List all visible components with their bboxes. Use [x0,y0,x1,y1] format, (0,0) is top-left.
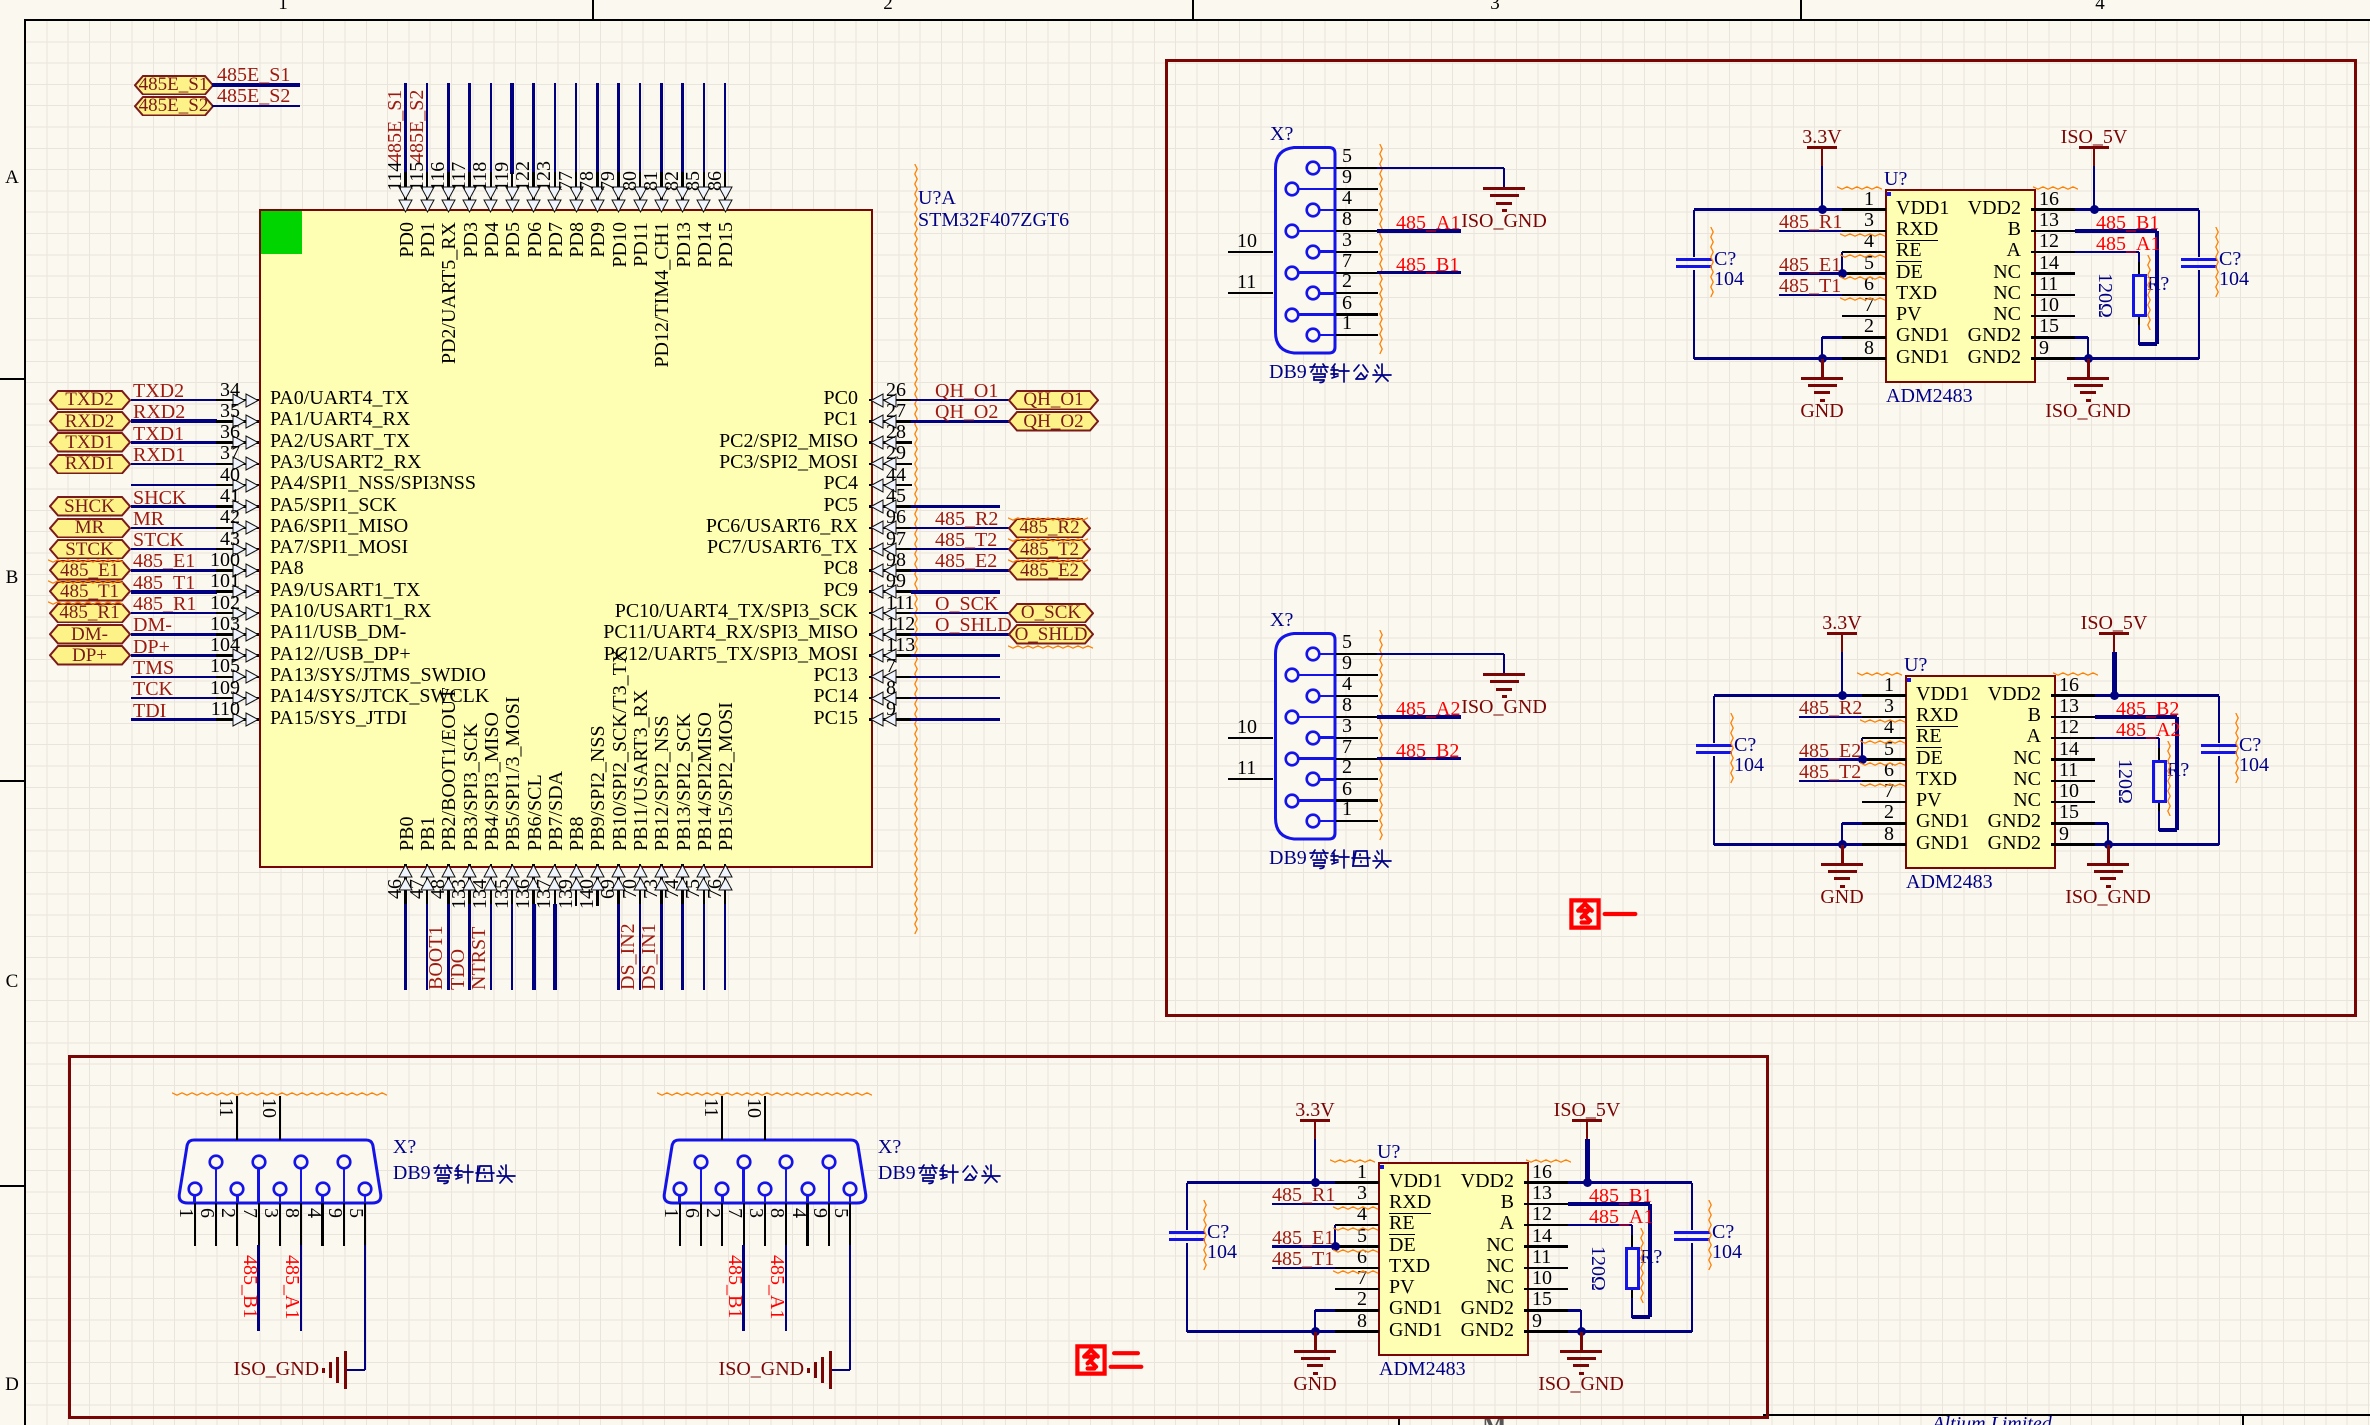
pin number 7 [1067,1270,1367,1287]
wire PD3 [468,83,471,174]
pin name PA8 [270,560,304,577]
orange zigzag right cap [2235,713,2240,784]
wire PB0 [404,904,407,990]
pin number 112 [886,616,915,633]
pin name PD2/UART5_RX [442,222,457,472]
pin number 79 [601,0,616,191]
wire pin5 to ISO_GND [849,1245,852,1370]
net label 485E_S1 [217,67,290,84]
pin 105 lead [216,676,259,679]
wire 485_A1 from pin8 [785,1245,788,1331]
net label 485_T1 [1272,1251,1334,1268]
MCU corner green square [261,211,302,254]
connector pin 5 circle [357,1181,373,1197]
net label STCK [133,532,184,549]
net label SHCK [133,490,186,507]
pin name PD9 [591,222,606,472]
net label 485E_S2 [217,88,290,105]
wire PD13 [681,83,684,174]
connector pin number 2 [1342,273,1352,290]
pin 16 lead [2031,208,2075,211]
pin 13 lead [1524,1203,1568,1206]
pin 47 lead [426,864,429,906]
orange zigzag left cap [1203,1200,1208,1271]
wire 485_T1 [1272,1267,1335,1270]
pin name B [1214,1194,1514,1211]
connector pin 3 lead [1318,736,1336,739]
pin number 100 [0,552,240,569]
pin name PC14 [558,688,858,705]
pin 2 lead [1862,822,1906,825]
wire O_SHLD [911,633,1009,636]
pin 114 arrow [398,185,413,213]
IC part ADM2483 [1886,388,1973,405]
pin name PD14 [698,222,713,472]
wire VDD2 row [2095,694,2219,697]
wire SHCK [131,505,218,508]
pin name GND2 [1741,835,2041,852]
connector designator X? [393,1139,416,1156]
resistor R? 120Ω body [1631,1235,1634,1247]
label 图一 [1568,897,1638,933]
connector pin 4 lead [806,1195,809,1204]
pin name NC [1741,771,2041,788]
pin 45 lead [869,505,912,508]
connector pin 1 circle [1305,813,1321,829]
pin 7 lead [1862,801,1906,804]
pin number 4 [1594,719,1894,736]
resistor designator R? [2147,276,2169,293]
port DM- [49,624,131,645]
pin number 114 [388,0,403,191]
connector pin 11 lead [236,1096,238,1140]
net label 485_A1 [1396,215,1460,232]
pin 8 lead [1335,1330,1379,1333]
pin 80 lead [639,172,642,209]
orange zigzag above IC [1857,672,1904,677]
connector pin 4 circle [800,1181,816,1197]
pin name PA11/USB_DM- [270,624,406,641]
pin number 139 [559,879,574,1039]
pin name PB8 [570,601,585,851]
wire GND1 pin2 [1842,822,1862,825]
wire PB11 [639,904,642,990]
connector pin number 4 [1342,676,1352,693]
connector pin 3 lead [764,1195,767,1204]
capacitor 104 label [1714,271,1744,288]
wire GND1 row [1187,1330,1335,1333]
wire 485_A2 [1377,715,1461,719]
connector pin 6 lead [215,1168,218,1204]
orange zigzag above connector [172,1092,387,1097]
connector pin number 7 [1342,253,1352,270]
connector label DB9弯针母头 [1269,850,1307,867]
pin 26 arrow [870,393,898,408]
connector pin 2 lead [236,1195,239,1204]
pin 110 lead [216,718,259,721]
pin name TXD [1896,285,1937,302]
pin 79 arrow [611,185,626,213]
junction [1838,269,1847,278]
pin name PC10/UART4_TX/SPI3_SCK [558,603,858,620]
pin number 27 [886,403,906,420]
connector pin number 10 [746,1098,761,1138]
pin number 76 [708,879,723,1039]
pin number 14 [1532,1228,1552,1245]
connector pin 1 lead [1318,820,1336,823]
pin name NC [1214,1258,1514,1275]
wire ISO_5V to VDD2 [2112,652,2117,696]
pin 104 lead [216,654,259,657]
port 485_R1 [49,603,131,624]
wire 485_B2 [1377,757,1461,760]
pin 74 lead [681,864,684,906]
resistor bottom lead [2158,803,2161,814]
power ground GND [1821,359,1824,377]
wire STCK [131,548,218,551]
wire GND2 pin15 [2075,336,2088,339]
resistor bottom lead [2138,317,2141,328]
net label 485_R1 [1272,1187,1335,1204]
pin number 10 [2039,297,2059,314]
pin 119 lead [511,172,514,209]
pin 27 arrow [870,414,898,429]
pin name PB5/SPI1/3_MOSI [506,601,521,851]
wire PD6 [532,83,535,174]
connector X? DB9弯针公头 body [1272,146,1342,360]
net label DM- [133,617,172,634]
pin 10 lead [2031,315,2075,318]
wire VDD2 row [2075,208,2199,211]
wire VDD2 row [1568,1181,1692,1184]
pin name PD13 [677,222,692,472]
pin number 10 [2059,783,2079,800]
pin 6 lead [1842,294,1886,297]
connector pin number 11 [218,1098,233,1138]
pin 74 arrow [675,864,690,892]
wire GND2 row9 [2095,843,2219,846]
pin number 74 [665,879,680,1039]
pin name NC [1721,264,2021,281]
pin 77 arrow [569,185,584,213]
pin number 86 [708,0,723,191]
pin number 46 [388,879,403,1039]
wire PC14 [911,697,1000,700]
pin number 8 [1067,1313,1367,1330]
pin name VDD2 [1741,686,2041,703]
wire 485_A1 from pin8 [300,1245,303,1331]
pin number 40 [0,467,240,484]
pin number 78 [580,0,595,191]
IC designator U? [1377,1144,1400,1161]
wire GND2 row9 [1568,1330,1692,1333]
wire PD8 [575,83,578,174]
power ground GND [1841,845,1844,863]
pin name PC6/USART6_RX [558,518,858,535]
junction [1838,691,1847,700]
wire PD4 [490,83,493,174]
pin 7 lead [869,676,912,679]
port 485E_S1 [134,75,214,96]
connector pin number 8 [284,1208,299,1248]
connector pin 9 circle [1284,667,1300,683]
pin 11 lead [2031,294,2075,297]
connector pin number 3 [1342,718,1352,735]
connector pin 5 lead [364,1195,367,1204]
pin 113 lead [869,654,912,657]
wire 485_E1 [1779,272,1842,275]
connector pin number 11 [1237,274,1256,291]
orange zigzag at resistor [2167,741,2172,816]
pin name PB11/USART3_RX [634,601,649,851]
power ground ISO_GND [1483,673,1525,676]
pin name PB14/SPI2MISO [698,601,713,851]
orange zigzag pin stubs [1840,233,1886,238]
pin 35 lead [216,420,259,423]
pin name PA1/UART4_RX [270,411,410,428]
pin 75 lead [703,864,706,906]
pin number 43 [0,531,240,548]
pin 40 lead [216,484,259,487]
pin name PD0 [400,222,415,472]
pin name VDD2 [1721,200,2021,217]
wire PD7 [554,83,557,174]
wire B net 485_B2 [2095,715,2177,719]
wire PC13 [911,676,1000,679]
pin name PB10/SPI2_SCK/T3_TX [613,601,628,851]
connector pin 10 lead [279,1096,281,1140]
pin 2 lead [1842,336,1886,339]
pin number 113 [886,637,915,654]
connector pin number 2 [220,1208,235,1248]
pin number 12 [2059,719,2079,736]
pin name NC [1214,1237,1514,1254]
pin name RE [1896,242,1922,259]
pin 34 lead [216,399,259,402]
wire 485_E1 [131,569,218,572]
capacitor C? label [1712,1224,1734,1241]
pin 78 lead [596,172,599,209]
pin number 102 [0,595,240,612]
pin number 2 [1574,318,1874,335]
pin number 119 [495,0,510,191]
pin name PB0 [400,601,415,851]
pin name PC4 [558,475,858,492]
pin number 1 [1067,1164,1367,1181]
connector pin 7 lead [1298,271,1336,274]
port DP+ [49,645,131,666]
pin 14 lead [2051,758,2095,761]
connector pin 4 lead [321,1195,324,1204]
pin 1 lead [1862,694,1906,697]
pin 47 arrow [420,864,435,892]
net label DS_IN1 [642,740,657,990]
connector pin 1 lead [193,1195,196,1204]
wire 3.3V to VDD1 [1314,1139,1317,1183]
connector pin number 8 [1342,697,1352,714]
net label 485_T1 [133,575,195,592]
pin number 9 [2059,826,2069,843]
pin 3 lead [1862,716,1906,719]
wire PD5 [510,83,514,174]
connector pin 9 lead [828,1168,831,1204]
wire left rail [1186,1183,1189,1231]
orange zigzag pin stubs [1860,719,1906,724]
pin name PA13/SYS/JTMS_SWDIO [270,667,486,684]
pin name PB3/SPI3_SCK [464,601,479,851]
pin 7 lead [1335,1288,1379,1291]
connector pin 3 circle [1305,730,1321,746]
port RXD2 [49,411,131,432]
group box 图一 [1165,59,2357,1017]
port 485_T1 [49,581,131,602]
pin number 81 [644,0,659,191]
connector pin 7 lead [1298,757,1336,760]
pin 42 lead [216,527,259,530]
wire 485_R2 [911,527,1009,530]
pin 9 arrow [870,712,898,727]
connector pin number 7 [1342,739,1352,756]
connector pin 3 lead [1318,250,1336,253]
port 485_E1 [49,560,131,581]
net label 485E_S2 [410,0,425,163]
wire 485_R2 [1799,716,1862,719]
pin number 136 [516,879,531,1039]
pin number 11 [1532,1249,1551,1266]
pin number 8 [886,680,896,697]
pin name VDD1 [1916,686,1969,703]
net label QH_O2 [935,404,998,421]
IC designator U? [1904,657,1927,674]
wire 485_T2 [1799,780,1862,783]
pin 85 lead [703,172,706,209]
wire A net 485_A1 [1568,1224,1632,1227]
orange zigzag at resistor [2147,255,2152,330]
port STCK [49,539,131,560]
sheet frame top border [25,19,2370,21]
pin name PA9/USART1_TX [270,582,420,599]
pin name PC0 [558,390,858,407]
wire PA4 [131,484,218,487]
pin number 28 [886,424,906,441]
wire 485E_S2 [212,105,300,108]
pin 105 arrow [231,669,259,684]
net label 485E_S1 [388,0,403,163]
pin name RXD [1916,707,1958,724]
pin name A [1721,242,2021,259]
wire 485_E2 [911,569,1009,572]
net label 485_A1 [284,1255,299,1375]
pin name PD10 [613,222,628,472]
pin 9 lead [2051,843,2095,846]
pin name PC15 [558,710,858,727]
wire RE to DE tie [1334,1225,1337,1246]
connector pin number 6 [1342,295,1352,312]
pin number 11 [2039,276,2058,293]
pin name GND1 [1389,1322,1442,1339]
wire PB2 [447,904,450,990]
wire O_SCK [911,612,1009,615]
sheet title fragment [1482,1417,1507,1425]
net label 485_R1 [133,596,196,613]
net label QH_O1 [935,383,998,400]
junction [1818,205,1827,214]
connector pin 2 lead [1318,292,1336,295]
pin number 15 [2059,804,2079,821]
pin 10 lead [1524,1288,1568,1291]
pin 109 lead [216,697,259,700]
pin 101 lead [216,590,259,593]
wire GND1 pin2 [1315,1309,1335,1312]
pin number 8 [1574,340,1874,357]
pin 73 arrow [654,864,669,892]
pin 139 arrow [569,864,584,892]
wire pin5 to ISO_GND [364,1245,367,1370]
connector pin 8 circle [1284,223,1300,239]
connector pin 3 lead [279,1195,282,1204]
resistor R? 120Ω body [2158,748,2161,760]
wire A net 485_A2 [2095,737,2159,740]
pin 85 arrow [696,185,711,213]
connector pin number 1 [1342,315,1352,332]
connector pin 2 circle [714,1181,730,1197]
pin name RE [1916,728,1942,745]
port SHCK [49,496,131,517]
pin number 98 [886,552,906,569]
pin 1 lead [1842,208,1886,211]
capacitor C? label [1207,1224,1229,1241]
connector pin 3 circle [757,1181,773,1197]
wire QH_O2 [911,420,1009,423]
orange zigzag above IC [1837,186,1884,191]
wire PB4 [490,904,493,990]
capacitor 104 label [1207,1244,1237,1261]
net label 485_B2 [2116,701,2179,718]
connector pin 6 circle [208,1154,224,1170]
connector pin 7 circle [251,1154,267,1170]
pin 140 arrow [590,864,605,892]
pin number 6 [1067,1249,1367,1266]
pin name PA14/SYS/JTCK_SWCLK [270,688,489,705]
pin 6 lead [1335,1267,1379,1270]
connector pin number 9 [812,1208,827,1248]
wire PD11 [639,83,642,174]
pin name PC1 [558,411,858,428]
connector pin number 9 [327,1208,342,1248]
pin 8 lead [1862,843,1906,846]
connector pin number 5 [1342,634,1352,651]
pin 43 arrow [231,542,259,557]
pin number 1 [1574,191,1874,208]
pin number 104 [0,637,240,654]
pin name PA6/SPI1_MISO [270,518,408,535]
pin 117 arrow [462,185,477,213]
pin 97 arrow [870,542,898,557]
pin 135 lead [511,864,514,906]
net label 485_T2 [1799,764,1861,781]
orange zigzag pin stubs [1333,1206,1379,1211]
wire TDI [131,718,218,721]
pin 79 lead [617,172,620,209]
wire 485_T1 [131,590,218,594]
junction [1331,1242,1340,1251]
pin name PD3 [464,222,479,472]
pin number 44 [886,467,906,484]
pin name GND2 [1214,1322,1514,1339]
pin number 13 [2059,698,2079,715]
connector pin 5 circle [842,1181,858,1197]
connector X? DB9弯针母头 body [174,1137,386,1207]
